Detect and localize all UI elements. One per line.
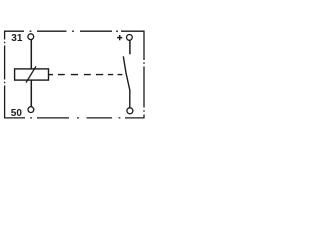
switch lever blade — [123, 56, 130, 107]
actuator stub from coil — [49, 74, 53, 76]
enclosure chain border top edge — [4, 30, 144, 32]
switch fixed contact wire — [129, 40, 131, 54]
relay coil box K — [15, 69, 49, 80]
terminal 50 circle — [28, 107, 34, 113]
svg-text:31: 31 — [11, 33, 23, 44]
wire coil to terminal 50 — [30, 80, 32, 107]
terminal + circle — [126, 35, 132, 41]
coil diagonal stroke — [26, 66, 36, 82]
switch bottom contact circle — [127, 108, 133, 114]
enclosure chain border left edge — [4, 31, 6, 119]
label + — [117, 35, 122, 40]
enclosure chain border bottom edge — [4, 117, 144, 119]
terminal 31 circle — [28, 34, 34, 40]
enclosure chain border right edge — [143, 31, 145, 119]
svg-text:50: 50 — [11, 108, 23, 119]
wire terminal 31 to coil — [30, 40, 32, 69]
dashed actuator link — [58, 74, 122, 76]
